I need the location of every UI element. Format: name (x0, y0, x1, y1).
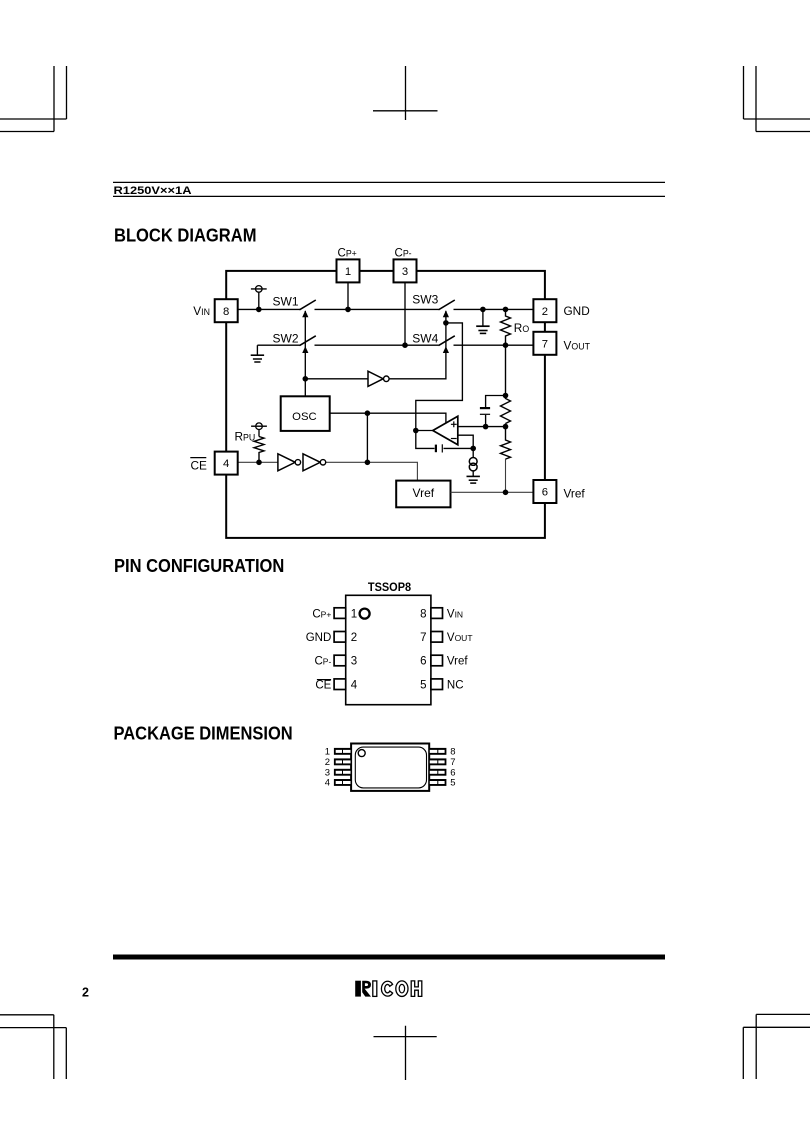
heading BLOCK DIAGRAM (114, 225, 257, 246)
arrowhead under SW4 (443, 346, 449, 353)
svg-text:3: 3 (402, 266, 408, 278)
package pin 1 left (334, 748, 351, 755)
switch SW1 (300, 300, 316, 310)
inverter U4 (CE second) (303, 454, 326, 471)
pin box 6 Vref (533, 480, 556, 503)
wire: output node down to feedback capacitor (416, 431, 435, 449)
capacitor C1 (parallel) (480, 396, 506, 427)
pin 5 stub right (431, 679, 443, 690)
comparator plus sign (451, 421, 457, 427)
pin 8 stub right (431, 608, 443, 619)
pin 1 stub left (334, 608, 346, 619)
svg-text:Vref: Vref (447, 656, 468, 668)
wire: capacitor to minus node (444, 447, 474, 449)
svg-text:VOUT: VOUT (447, 632, 473, 644)
pin number 4 (351, 679, 358, 691)
svg-text:2: 2 (82, 986, 89, 1000)
svg-text:PIN CONFIGURATION: PIN CONFIGURATION (114, 555, 284, 576)
package inner rounded outline (355, 747, 426, 788)
label SW2 (273, 331, 299, 345)
ground on GND row (476, 309, 489, 333)
header rule top (113, 181, 665, 183)
svg-text:1: 1 (325, 747, 330, 758)
arrowhead under SW1 (302, 310, 308, 317)
package outer body (351, 744, 429, 791)
wire: VOUT row (SW2/SW4 row) (257, 344, 533, 346)
svg-text:VIN: VIN (193, 304, 210, 318)
resistor R2 (divider bottom) (501, 424, 511, 493)
svg-text:7: 7 (420, 632, 426, 644)
svg-text:2: 2 (325, 757, 330, 768)
resistor R1 (divider top) (501, 345, 511, 423)
crop mark top-right (744, 66, 810, 132)
svg-text:SW2: SW2 (273, 331, 299, 345)
node: VIN terminal junction (256, 307, 262, 313)
resistor RPU (254, 437, 264, 463)
pin 6 stub right (431, 655, 443, 666)
node: box3 wire junction on SW4 row (402, 342, 408, 348)
svg-text:6: 6 (542, 487, 548, 499)
svg-text:1: 1 (345, 266, 351, 278)
wire: comparator output (416, 430, 433, 432)
wire: inverter input (305, 378, 368, 380)
pin 1 indicator circle (360, 609, 370, 619)
crop mark bottom-right (743, 1014, 810, 1079)
footer bar (113, 955, 665, 960)
pin label Vref (447, 656, 468, 668)
pin 7 stub right (431, 632, 443, 643)
pin 4 stub left (334, 679, 346, 690)
RICOH logo letter O (396, 981, 408, 997)
svg-text:5: 5 (450, 778, 455, 789)
crop mark top-center (373, 66, 438, 120)
package pin 2 left (334, 758, 351, 765)
header rule bottom (113, 195, 665, 197)
node: RO bottom on VOUT row (503, 342, 509, 348)
svg-text:SW3: SW3 (412, 293, 438, 307)
header product name R1250Vxx1A (114, 185, 192, 197)
inverter U3 (CE first) (278, 454, 301, 471)
RICOH logo letter I (373, 981, 377, 997)
svg-text:CE: CE (315, 679, 331, 691)
switch SW2 (300, 336, 316, 346)
pin label CP- (314, 656, 331, 668)
wire: control branch down to comparator output (416, 323, 463, 431)
svg-text:8: 8 (450, 747, 455, 758)
ground under current source (467, 476, 480, 483)
page number 2 (82, 986, 89, 1000)
svg-text:7: 7 (542, 338, 548, 350)
svg-text:BLOCK DIAGRAM: BLOCK DIAGRAM (114, 225, 257, 246)
pin box 3 CP- (394, 259, 417, 282)
svg-text:4: 4 (325, 778, 330, 789)
label SW4 (412, 331, 438, 345)
svg-text:TSSOP8: TSSOP8 (368, 580, 411, 594)
label CE left with overline (190, 458, 207, 473)
label SW1 (273, 294, 299, 308)
label CP+ top (338, 247, 357, 259)
node: box1 wire junction on VIN row (345, 307, 351, 313)
package pin 3 left (334, 769, 351, 776)
node: divider mid junction (503, 424, 509, 430)
wire: inverter output to SW4/SW3 control (389, 311, 446, 379)
inverter U2 (switch driver) (368, 371, 389, 386)
current source I1 (469, 448, 477, 476)
pin box 2 GND (533, 299, 556, 322)
wire: CE row (238, 462, 418, 480)
svg-text:SW1: SW1 (273, 294, 299, 308)
label GND right (564, 304, 590, 318)
pin label GND (306, 632, 332, 644)
svg-text:Vref: Vref (413, 486, 435, 500)
svg-text:CP-: CP- (395, 247, 412, 259)
svg-text:CE: CE (191, 458, 208, 472)
TSSOP8 package body (346, 595, 431, 704)
svg-text:RO: RO (514, 321, 530, 335)
pin label VIN (447, 608, 463, 620)
pin box 7 VOUT (533, 332, 556, 355)
svg-text:SW4: SW4 (412, 331, 438, 345)
svg-text:CP-: CP- (314, 656, 331, 668)
svg-text:GND: GND (564, 304, 590, 318)
node: CE line junction to OSC branch (365, 460, 371, 466)
label TSSOP8 (368, 580, 411, 594)
pin number 2 (351, 632, 357, 644)
svg-text:4: 4 (223, 458, 229, 470)
resistor RO (501, 309, 511, 345)
svg-text:3: 3 (351, 656, 357, 668)
wire: left control vertical to OSC (304, 311, 306, 396)
svg-text:RPU: RPU (235, 430, 256, 444)
wire: comparator minus input (458, 435, 473, 448)
arrowhead under SW2 (302, 346, 308, 353)
svg-text:5: 5 (420, 679, 426, 691)
wire: branch from OSC line down to CE line (366, 413, 368, 462)
Vref block (396, 481, 450, 508)
comparator minus sign (451, 438, 457, 440)
pin label VOUT (447, 632, 473, 644)
pin number 3 (351, 656, 357, 668)
crop mark bottom-left (0, 1015, 66, 1079)
wire: box1 to VIN row (347, 282, 349, 309)
pin number 5 (420, 679, 426, 691)
svg-text:2: 2 (542, 306, 548, 318)
IC outline box (226, 271, 545, 538)
OSC block (281, 396, 330, 431)
pin number 6 (420, 656, 426, 668)
package pin 5 right (429, 779, 446, 786)
terminal symbol above VIN node (251, 286, 267, 310)
terminal symbol above RPU (251, 423, 267, 437)
pin 3 stub left (334, 655, 346, 666)
package pin 4 left (334, 779, 351, 786)
node: divider top (503, 393, 509, 399)
pin box 1 CP+ (337, 259, 360, 282)
pin 2 stub left (334, 632, 346, 643)
svg-text:8: 8 (420, 608, 426, 620)
svg-text:1: 1 (351, 608, 357, 620)
pin number 8 (420, 608, 426, 620)
package pin numbers left (325, 747, 330, 789)
svg-text:7: 7 (450, 757, 455, 768)
pin number 1 (351, 608, 357, 620)
svg-text:VIN: VIN (447, 608, 463, 620)
node: SW3 control junction (443, 320, 449, 326)
pin box 4 CE (215, 452, 238, 475)
pin label CP+ (312, 608, 331, 620)
package pin 8 right (429, 748, 446, 755)
label SW3 (412, 293, 438, 307)
svg-text:OSC: OSC (292, 411, 316, 423)
pin number 7 (420, 632, 426, 644)
node: OSC output branch to CE line (365, 410, 371, 416)
pin label NC (447, 679, 464, 691)
svg-text:4: 4 (351, 679, 358, 691)
switch SW3 (439, 300, 455, 310)
label CP- top (395, 247, 412, 259)
label RO (514, 321, 530, 335)
svg-text:GND: GND (306, 632, 332, 644)
RICOH logo letter C (381, 981, 392, 996)
package pin numbers right (450, 747, 455, 789)
svg-text:8: 8 (223, 306, 229, 318)
svg-text:2: 2 (351, 632, 357, 644)
package pin 1 mark circle (358, 750, 365, 757)
capacitor C2 (series feedback) (436, 444, 442, 452)
label Vref right (564, 487, 586, 501)
wire: OSC output (330, 413, 446, 423)
wire: comparator plus input (458, 426, 506, 428)
switch SW4 (439, 336, 455, 346)
pin label CE with overline (315, 679, 331, 691)
wire: box3 to SW4 row (404, 282, 406, 345)
pin box 8 VIN (215, 299, 238, 322)
node: RO top (503, 307, 509, 313)
label VOUT right (564, 339, 591, 353)
node: ground junction on GND row (480, 307, 486, 313)
RICOH logo letter H (411, 981, 422, 997)
heading PACKAGE DIMENSION (114, 722, 293, 743)
crop mark bottom-center (374, 1026, 437, 1080)
wire: VIN row (SW1/SW3/GND row) (238, 308, 534, 310)
wire: Vref output row (451, 491, 534, 493)
node: RPU junction on CE row (256, 460, 262, 466)
RICOH logo letter R (355, 981, 371, 997)
svg-text:CP+: CP+ (312, 608, 331, 620)
svg-text:R1250V××1A: R1250V××1A (114, 185, 192, 197)
package pin 7 right (429, 758, 446, 765)
svg-text:CP+: CP+ (338, 247, 357, 259)
ground at SW2 left (251, 345, 264, 362)
svg-text:VOUT: VOUT (564, 339, 591, 353)
svg-text:Vref: Vref (564, 487, 586, 501)
node: divider bottom on Vref row (503, 490, 509, 496)
node: plus input capacitor junction (483, 424, 489, 430)
label RPU (235, 430, 256, 444)
label VIN left (193, 304, 210, 318)
heading PIN CONFIGURATION (114, 555, 284, 576)
svg-text:NC: NC (447, 679, 464, 691)
package pin 6 right (429, 769, 446, 776)
node: control line to inverter branch (303, 376, 309, 382)
comparator U1 (433, 416, 458, 445)
arrowhead under SW3 (443, 310, 449, 317)
svg-text:6: 6 (420, 656, 426, 668)
crop mark top-left (0, 66, 67, 132)
svg-text:PACKAGE DIMENSION: PACKAGE DIMENSION (114, 722, 293, 743)
node: minus input junction (470, 446, 476, 452)
node: comparator output (413, 428, 419, 434)
